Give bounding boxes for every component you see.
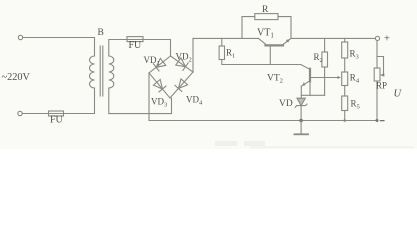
- wire: secondary top to fuse FU (top): [109, 40, 127, 57]
- transformer B core: [99, 46, 101, 96]
- svg-text:R: R: [262, 5, 269, 15]
- bridge edge bottom-left with diode VD3: [149, 73, 170, 98]
- wire: VT2 emitter to zener VD: [300, 86, 302, 98]
- transistor VT2 emitter lead: [301, 81, 310, 87]
- terminal bottom-left: [18, 111, 22, 115]
- resistor R4: [342, 72, 348, 86]
- RP wiper loop: [377, 57, 384, 76]
- wire: VT2 emitter straight lead down: [309, 81, 311, 95]
- wire: R right lead: [278, 17, 291, 39]
- transistor VT1 emitter lead: [282, 38, 291, 45]
- wire R5 to negative rail: [344, 111, 346, 121]
- terminal top-left: [18, 35, 22, 39]
- resistor R3: [342, 42, 348, 58]
- bridge edge top-right with diode VD2: [171, 56, 194, 72]
- divider column: rail to R3: [344, 38, 346, 42]
- wire: fuse to transformer primary bottom: [64, 88, 95, 114]
- wire: bottom AC lead to fuse FU: [22, 113, 48, 115]
- wire: secondary bottom to bridge bottom node (crosses left riser): [109, 88, 172, 114]
- svg-text:RP: RP: [376, 81, 387, 91]
- potentiometer RP: [374, 68, 380, 81]
- wire: bridge left node down to negative rail: [148, 73, 150, 121]
- transistor VT1 collector lead: [259, 38, 267, 45]
- wire: VT1 base down to node line: [269, 47, 271, 65]
- diode VD3: [153, 79, 162, 89]
- wire R4 to R5: [344, 86, 346, 97]
- svg-text:FU: FU: [50, 115, 64, 126]
- wire: zener to negative rail: [300, 106, 302, 121]
- terminal - (output): [376, 119, 379, 122]
- transistor VT1 base bar: [266, 44, 284, 46]
- diode VD1: [156, 58, 166, 67]
- transistor VT2 emitter arrow: [302, 82, 306, 86]
- scan smudge marks at bottom: [215, 141, 237, 146]
- terminal + (output): [375, 36, 379, 40]
- fuse FU (top): [127, 39, 143, 41]
- wire R3 to R4: [344, 58, 346, 72]
- resistor R1: [221, 38, 223, 46]
- bridge edge top-left with diode VD1: [149, 56, 171, 73]
- transistor VT2 base bar: [309, 69, 311, 82]
- svg-text:VD: VD: [279, 99, 293, 109]
- minus sign: [380, 120, 384, 122]
- wire: positive rail right segment: [291, 37, 375, 39]
- diode VD4: [178, 79, 187, 89]
- wire: R1 bottom to node line: [222, 60, 301, 65]
- wire: positive rail left segment: [193, 37, 259, 39]
- wire: emitter node horizontal link: [301, 94, 324, 96]
- bridge edge bottom-right with diode VD4: [170, 72, 193, 98]
- tap arrow into R4: [337, 76, 341, 79]
- wire: R2 bottom down past base line to emitter node: [324, 67, 326, 95]
- wire: R left lead: [242, 17, 255, 39]
- wire: VT2 base line to divider tap: [311, 77, 338, 79]
- resistor R2: [324, 38, 326, 52]
- junction dot divider bottom: [343, 119, 346, 122]
- transistor VT2 collector lead: [301, 65, 310, 70]
- svg-text:FU: FU: [129, 40, 143, 51]
- wire: negative (bottom) rail: [149, 120, 378, 122]
- transformer B primary winding: [90, 56, 95, 88]
- zener diode VD: [297, 98, 305, 105]
- RP wiper arrow: [380, 73, 384, 77]
- wire: + terminal down to RP: [376, 41, 378, 68]
- wire: RP bottom to negative rail end: [376, 81, 378, 121]
- svg-text:B: B: [98, 28, 104, 38]
- wire: bridge right node up to positive rail: [192, 38, 194, 72]
- svg-text:+: +: [384, 33, 390, 44]
- transistor VT1 emitter arrow: [286, 39, 290, 43]
- fuse FU (bottom-left): [49, 113, 64, 115]
- wire: top AC lead to transformer primary top: [23, 38, 95, 57]
- junction dot: [299, 119, 303, 123]
- ground symbol: [300, 121, 302, 135]
- transformer B secondary winding: [109, 56, 114, 88]
- wire: fuse to bridge top node: [143, 40, 171, 57]
- paper background: [0, 0, 417, 149]
- svg-text:~220V: ~220V: [2, 72, 31, 83]
- diode VD2: [176, 58, 186, 67]
- resistor R5: [342, 96, 348, 111]
- resistor R: [255, 14, 278, 20]
